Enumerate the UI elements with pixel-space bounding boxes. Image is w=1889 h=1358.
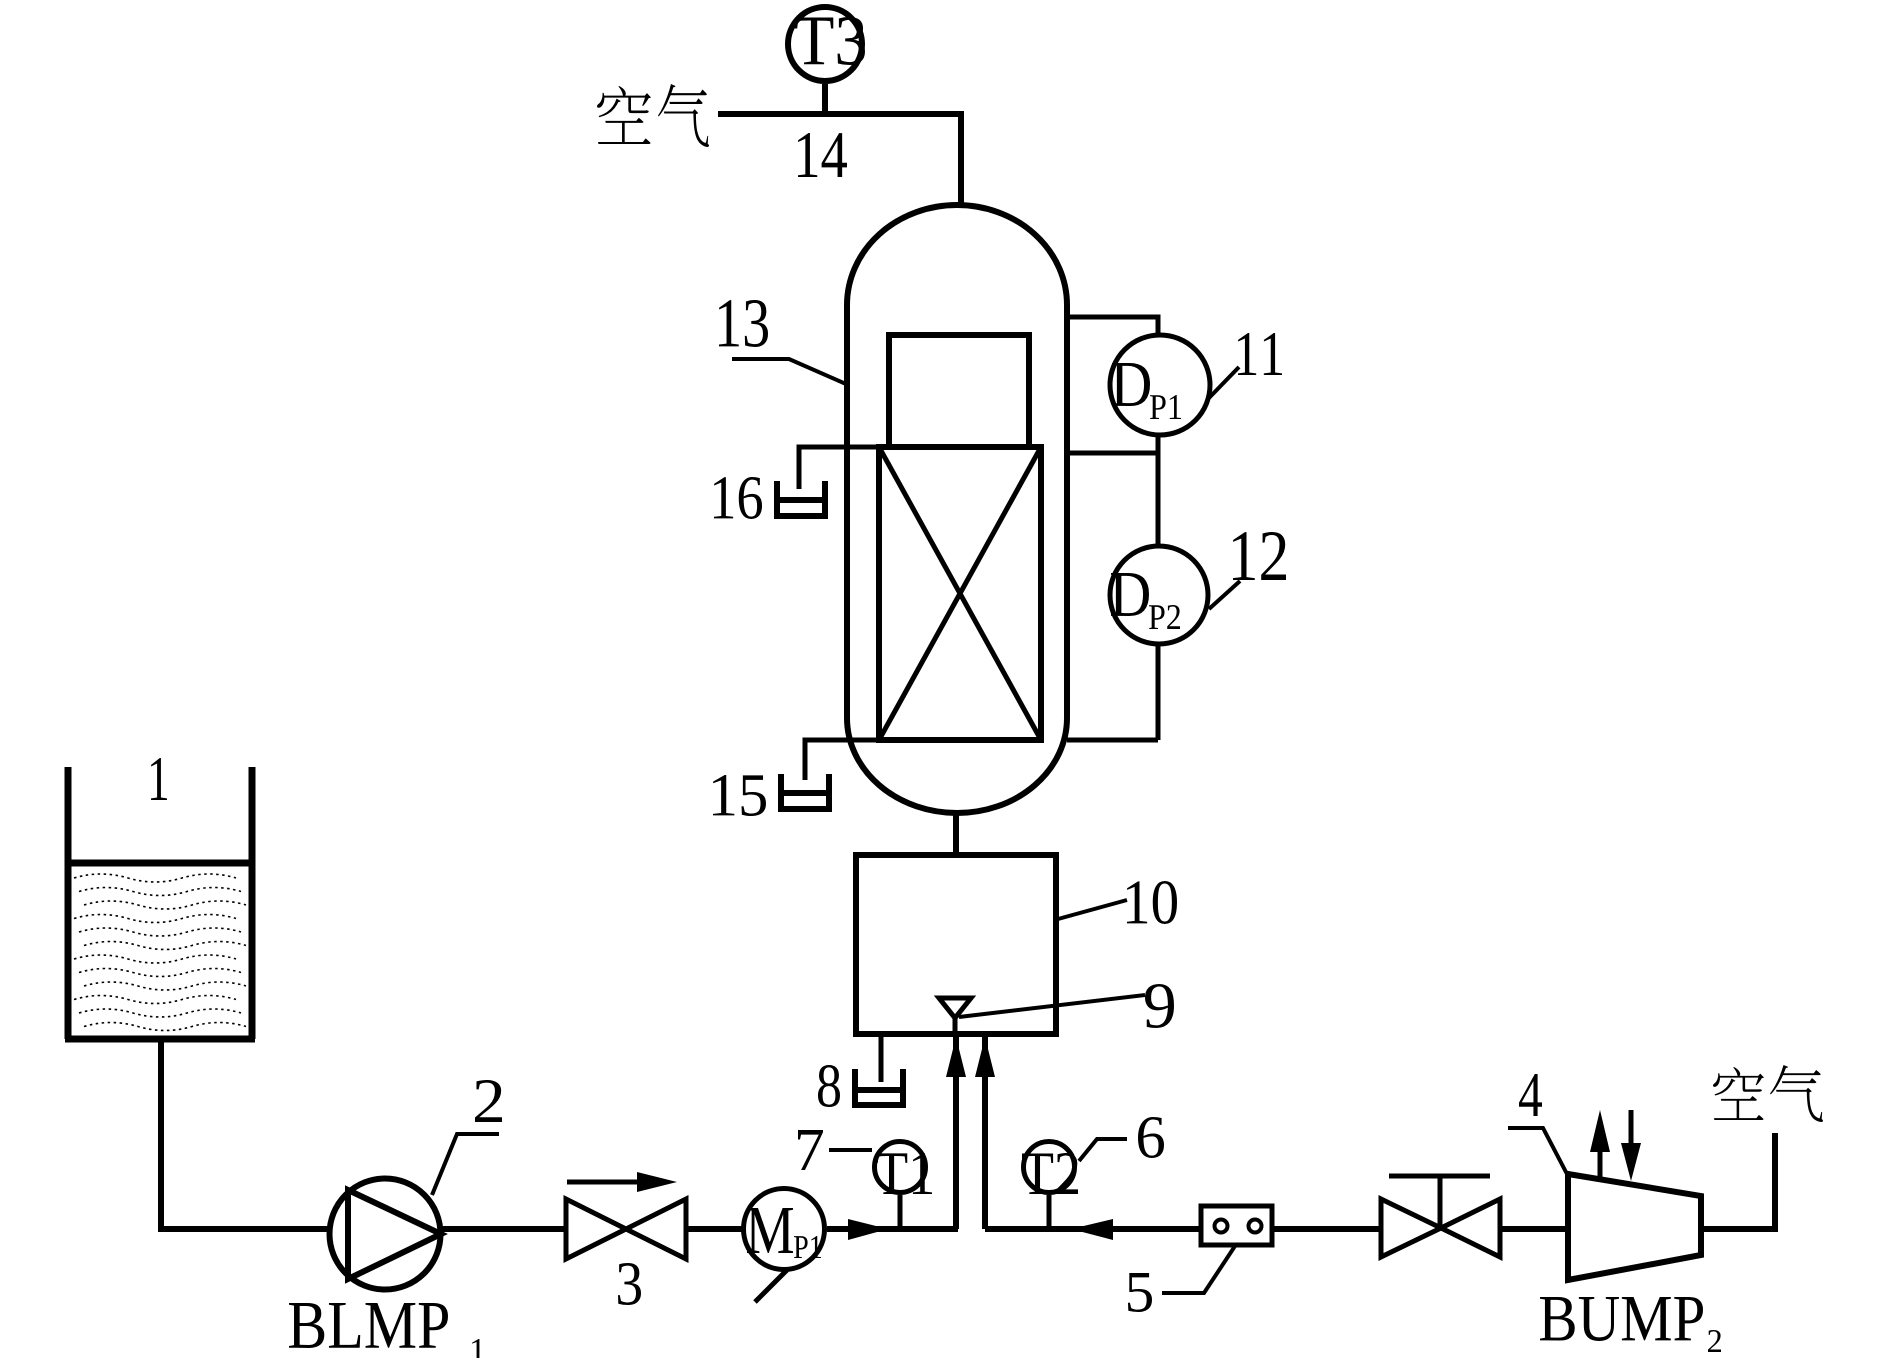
wire: air inlet to blower: [1701, 1133, 1775, 1229]
pump label BLMP1: [289, 1303, 448, 1348]
wire: liquid riser: [953, 1034, 959, 1229]
sensor 16 thermowell cup: [777, 481, 825, 516]
spray nozzle 9: [939, 998, 971, 1018]
air flow meter 5: [1201, 1206, 1272, 1245]
vessel 13 (packed column): [847, 205, 1067, 813]
temperature sensor T2: [1047, 1195, 1052, 1229]
inner distributor box: [889, 335, 1029, 447]
label 5 with leader: [1162, 1246, 1235, 1293]
label 10 with leader: [1058, 900, 1127, 919]
wire: flowmeter 5 to air valve: [1272, 1226, 1381, 1232]
wire: bottom pressure tap: [1067, 738, 1158, 743]
wire: middle pressure tap: [1067, 451, 1158, 456]
flow arrow left air: [1071, 1219, 1113, 1240]
wire: junction to flowmeter 5: [985, 1226, 1201, 1232]
label 2 with leader: [432, 1134, 499, 1195]
wire: tap to sensor 8: [879, 1034, 884, 1082]
air label 空气 (top left): [597, 84, 709, 147]
wire: tap to sensor 16: [799, 447, 879, 489]
label 15: [713, 775, 766, 816]
air control valve: [1381, 1199, 1500, 1257]
sensor 15 thermowell cup: [781, 774, 829, 809]
wire: tank outlet down: [158, 1042, 164, 1229]
wire: upper pressure tap: [1067, 317, 1158, 333]
wire: valve 3 to flowmeter: [686, 1226, 745, 1232]
air label 空气 (right): [1713, 1065, 1823, 1122]
separator tank 10: [856, 855, 1056, 1034]
differential pressure sensor DP2: [1110, 546, 1208, 644]
wire: flowmeter to junction: [827, 1226, 958, 1232]
wire: vessel bottom outlet: [953, 813, 959, 855]
label 1: [151, 758, 167, 800]
label 6 with leader: [1079, 1139, 1127, 1161]
blower 4 BUMP2: [1568, 1174, 1701, 1280]
wire: DP1 to middle tap: [1156, 436, 1161, 544]
blower intake arrow down: [1629, 1110, 1634, 1147]
label 8: [818, 1065, 840, 1107]
flow arrow right liquid: [848, 1219, 888, 1240]
label 9 with leader: [959, 995, 1145, 1017]
flow arrow up liquid: [946, 1037, 966, 1077]
wire: gas riser: [982, 1034, 988, 1229]
wire: tap to sensor 15: [805, 740, 879, 780]
wire: valve to blower: [1500, 1226, 1568, 1232]
label 3: [618, 1263, 641, 1305]
flow arrow up gas: [975, 1037, 995, 1077]
temperature sensor T3: [822, 84, 828, 114]
label 4 with leader: [1508, 1128, 1567, 1174]
node label 14: [798, 133, 847, 177]
wire: air inlet line 14: [718, 114, 961, 207]
label 12 with leader: [1209, 581, 1240, 609]
flow meter MP1: [744, 1189, 825, 1270]
differential pressure sensor DP1: [1110, 335, 1210, 435]
valve 3: [566, 1199, 686, 1259]
wire: tank to pump: [158, 1226, 330, 1232]
sensor 8 thermowell cup: [855, 1069, 903, 1105]
label 16: [714, 477, 762, 519]
flow arrow above valve 3: [567, 1180, 640, 1185]
feed tank 1: [65, 767, 255, 1039]
label 7 with leader: [829, 1148, 872, 1152]
pump 2 BLMP1: [330, 1179, 441, 1290]
wire: pump to valve 3: [443, 1226, 566, 1232]
blower label BUMP2: [1540, 1297, 1703, 1341]
blower vent arrow up: [1598, 1148, 1603, 1181]
label 13 with leader: [732, 359, 846, 384]
temperature sensor T1: [898, 1195, 903, 1229]
tank liquid wavy fill: [74, 874, 246, 1031]
wire: DP2 to bottom tap: [1156, 646, 1161, 740]
packing bed X-box: [879, 447, 1041, 740]
label 11 with leader: [1207, 367, 1239, 400]
